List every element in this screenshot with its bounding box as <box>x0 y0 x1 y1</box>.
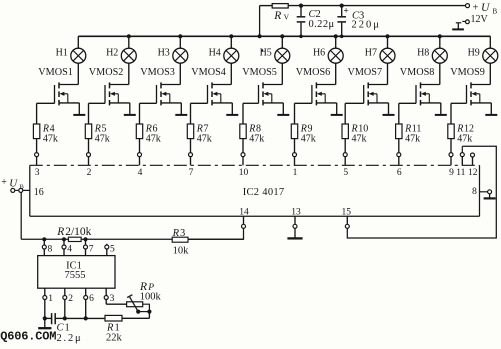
svg-text:15: 15 <box>342 208 352 218</box>
svg-text:47k: 47k <box>352 133 367 144</box>
svg-text:IC2 4017: IC2 4017 <box>243 187 285 198</box>
svg-text:H5: H5 <box>260 47 272 58</box>
svg-text:R: R <box>56 226 64 238</box>
svg-text:H7: H7 <box>365 47 377 58</box>
svg-text:2: 2 <box>68 294 73 304</box>
svg-text:7: 7 <box>189 168 194 178</box>
svg-text:8: 8 <box>472 186 477 197</box>
svg-text:47k: 47k <box>249 133 264 144</box>
svg-text:VMOS6: VMOS6 <box>296 67 331 78</box>
svg-text:6: 6 <box>89 294 94 304</box>
svg-text:V: V <box>284 12 290 21</box>
svg-text:VMOS4: VMOS4 <box>191 67 226 78</box>
svg-text:VMOS3: VMOS3 <box>140 67 175 78</box>
svg-text:47k: 47k <box>43 133 58 144</box>
svg-text:H2: H2 <box>106 47 118 58</box>
svg-text:VMOS5: VMOS5 <box>242 67 277 78</box>
svg-text:47k: 47k <box>95 133 110 144</box>
svg-text:22k: 22k <box>106 332 123 343</box>
svg-text:100k: 100k <box>140 291 162 302</box>
svg-text:8: 8 <box>48 245 53 255</box>
svg-text:3: 3 <box>180 228 185 239</box>
svg-text:+: + <box>1 177 7 188</box>
svg-text:11: 11 <box>456 168 465 178</box>
svg-text:U: U <box>481 2 490 14</box>
svg-text:16: 16 <box>34 187 44 198</box>
svg-text:14: 14 <box>239 207 249 217</box>
svg-text:47k: 47k <box>457 133 472 144</box>
svg-text:H1: H1 <box>56 47 68 58</box>
svg-text:3: 3 <box>35 168 40 178</box>
svg-text:3: 3 <box>110 294 115 304</box>
svg-text:13: 13 <box>291 208 301 218</box>
svg-text:U: U <box>9 177 18 189</box>
svg-text:VMOS1: VMOS1 <box>38 67 73 78</box>
svg-text:H4: H4 <box>209 47 221 58</box>
svg-text:5: 5 <box>343 168 348 178</box>
svg-text:9: 9 <box>449 168 454 178</box>
svg-text:1: 1 <box>48 294 53 304</box>
svg-text:+: + <box>473 3 479 14</box>
svg-text:6: 6 <box>397 168 402 178</box>
svg-text:10k: 10k <box>173 246 190 257</box>
svg-text:H8: H8 <box>417 47 429 58</box>
svg-text:12V: 12V <box>471 14 489 25</box>
svg-text:2: 2 <box>87 168 92 178</box>
svg-text:0.22μ: 0.22μ <box>309 19 335 30</box>
svg-text:2.2μ: 2.2μ <box>57 333 83 344</box>
svg-text:7: 7 <box>89 245 94 255</box>
svg-text:47k: 47k <box>146 133 161 144</box>
svg-text:B: B <box>493 8 498 16</box>
svg-text:R: R <box>172 228 180 239</box>
svg-text:4: 4 <box>67 245 72 255</box>
svg-text:Q606.COM: Q606.COM <box>0 329 56 343</box>
svg-text:220μ: 220μ <box>352 20 381 31</box>
svg-text:+: + <box>344 6 349 16</box>
svg-text:H3: H3 <box>158 47 170 58</box>
svg-text:47k: 47k <box>197 133 212 144</box>
svg-text:4: 4 <box>138 168 143 178</box>
svg-text:H9: H9 <box>468 47 480 58</box>
svg-text:10: 10 <box>239 168 249 178</box>
svg-text:47k: 47k <box>301 133 316 144</box>
svg-text:VMOS9: VMOS9 <box>450 67 485 78</box>
svg-text:H6: H6 <box>313 47 325 58</box>
svg-text:VMOS7: VMOS7 <box>348 67 383 78</box>
svg-text:12: 12 <box>468 168 478 178</box>
svg-text:VMOS8: VMOS8 <box>400 67 435 78</box>
svg-text:7555: 7555 <box>65 270 86 281</box>
svg-text:R: R <box>273 10 281 22</box>
svg-text:2/10k: 2/10k <box>65 226 91 238</box>
svg-text:1: 1 <box>293 168 298 178</box>
svg-text:5: 5 <box>110 245 115 255</box>
svg-text:47k: 47k <box>405 133 420 144</box>
svg-text:VMOS2: VMOS2 <box>89 67 124 78</box>
